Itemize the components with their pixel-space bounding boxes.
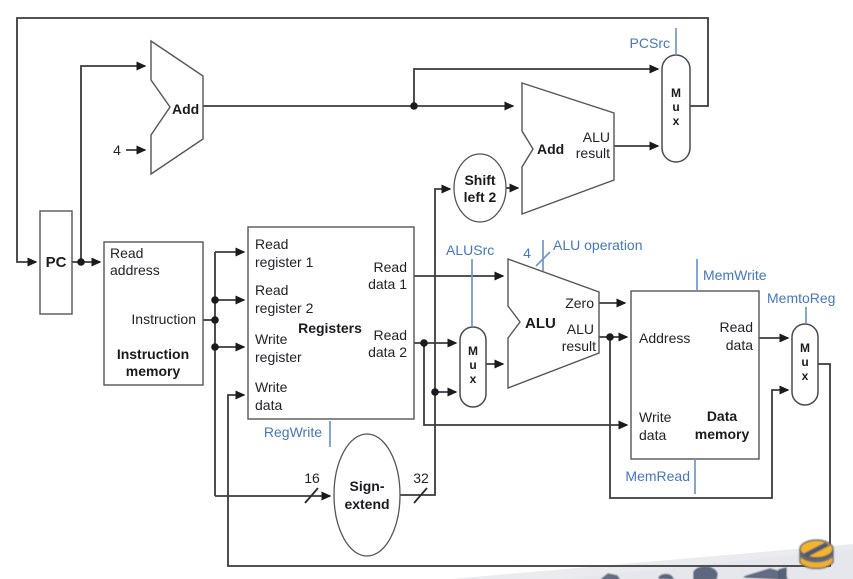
instruction memory box — [104, 242, 203, 385]
PC register box — [40, 211, 72, 314]
wire: bus to Write register — [215, 346, 244, 348]
svg-text:Shift: Shift — [464, 172, 495, 188]
adder Add (branch target) — [522, 83, 614, 214]
svg-text:Add: Add — [172, 101, 199, 117]
wire: PC output up to Add — [81, 66, 145, 262]
svg-text:MemtoReg: MemtoReg — [767, 290, 835, 306]
svg-text:Add: Add — [537, 141, 564, 157]
slash 32 — [414, 488, 427, 503]
mux PCSrc — [662, 55, 690, 162]
svg-text:Sign-: Sign- — [350, 478, 385, 494]
wire: ALUSrc mux output to ALU input 2 — [486, 363, 503, 365]
svg-text:data 1: data 1 — [368, 276, 407, 292]
svg-text:RegWrite: RegWrite — [264, 424, 322, 440]
mux MemtoReg — [792, 324, 818, 405]
svg-text:Instruction: Instruction — [117, 346, 189, 362]
svg-text:Zero: Zero — [565, 295, 594, 311]
svg-text:Read: Read — [374, 259, 407, 275]
ALU — [508, 259, 599, 388]
control signal MemWrite — [697, 259, 767, 291]
svg-text:16: 16 — [304, 470, 320, 486]
svg-text:MemWrite: MemWrite — [703, 267, 767, 283]
node: bus instruction junction — [211, 316, 219, 324]
svg-text:Read: Read — [255, 282, 288, 298]
svg-text:address: address — [110, 262, 160, 278]
wire: bus to Read register 1 — [215, 251, 244, 253]
svg-text:register 1: register 1 — [255, 254, 314, 270]
svg-text:ALU: ALU — [567, 321, 594, 337]
shift left 2 ellipse — [454, 154, 506, 222]
svg-text:M: M — [800, 341, 810, 355]
svg-text:u: u — [672, 100, 679, 114]
svg-text:data: data — [255, 397, 282, 413]
wire: sign-extend branch to ALUSrc mux input 1 — [435, 391, 456, 393]
svg-text:PC: PC — [46, 254, 67, 271]
svg-text:x: x — [673, 114, 680, 128]
svg-text:M: M — [468, 344, 478, 358]
node: Add output junction — [410, 102, 418, 110]
svg-text:u: u — [801, 355, 808, 369]
wire: bus to sign-extend — [215, 495, 330, 497]
svg-text:PCSrc: PCSrc — [630, 35, 670, 51]
wire: PC output to instruction memory — [72, 261, 100, 263]
node: read data 2 junction — [420, 339, 428, 347]
svg-text:ALUSrc: ALUSrc — [446, 242, 494, 258]
svg-text:32: 32 — [413, 470, 429, 486]
svg-text:extend: extend — [344, 496, 389, 512]
wire: ALU Zero output — [599, 302, 625, 304]
svg-text:4: 4 — [113, 142, 121, 158]
control signal RegWrite — [264, 421, 330, 447]
svg-text:memory: memory — [695, 426, 750, 442]
bit-width slashes — [305, 488, 427, 503]
control signal PCSrc — [630, 28, 676, 55]
wire: ALU result bypass to MemtoReg mux input 1 — [610, 337, 788, 498]
svg-text:Registers: Registers — [298, 320, 362, 336]
svg-text:Write: Write — [255, 379, 288, 395]
node: ALU result junction — [606, 333, 614, 341]
svg-text:x: x — [470, 372, 477, 386]
svg-text:Address: Address — [639, 330, 690, 346]
wire: instruction bus vertical — [214, 252, 216, 496]
control signal ALUSrc — [446, 242, 494, 327]
wire: Read data 2 branch down to data memory write data — [424, 343, 627, 425]
slash 16 — [305, 488, 318, 503]
svg-text:u: u — [469, 358, 476, 372]
wire: junction up to PCSrc mux input 0 — [414, 69, 658, 106]
wire: ALU result to data memory address — [599, 336, 627, 338]
svg-text:register 2: register 2 — [255, 300, 314, 316]
svg-text:x: x — [802, 369, 809, 383]
svg-text:result: result — [562, 338, 596, 354]
svg-text:register: register — [255, 349, 302, 365]
wire: instruction memory output to bus — [203, 319, 215, 321]
bottom gray wedge — [450, 544, 853, 579]
wire: PCSrc mux output feedback to PC — [17, 18, 708, 262]
svg-text:MemRead: MemRead — [625, 468, 690, 484]
svg-text:left 2: left 2 — [464, 189, 497, 205]
svg-text:data: data — [639, 427, 666, 443]
svg-text:result: result — [576, 145, 610, 161]
svg-text:Read: Read — [720, 319, 753, 335]
wire: data memory read data to MemtoReg mux input 0 — [759, 337, 788, 339]
wire: Add output to junction and branch Add — [203, 105, 513, 107]
svg-text:Read: Read — [255, 236, 288, 252]
wire: sign-extend output up to shift left 2 — [400, 189, 450, 495]
svg-text:ALU: ALU — [583, 129, 610, 145]
svg-text:ALU: ALU — [525, 315, 556, 332]
data memory box — [631, 291, 759, 459]
svg-text:M: M — [671, 86, 681, 100]
clipart: blue-gray bolt fragments at bottom edge — [602, 567, 787, 579]
wire: Read data 1 to ALU input 1 — [414, 275, 503, 277]
node: bus read register 2 junction — [211, 296, 219, 304]
wire: shift left 2 to branch Add input — [506, 187, 518, 189]
control signal MemRead — [625, 459, 695, 494]
svg-text:Instruction: Instruction — [131, 311, 196, 327]
adder Add (PC+4) — [113, 41, 203, 174]
control signal MemtoReg — [767, 290, 835, 324]
clipart: yellow screw head — [800, 540, 833, 568]
svg-text:memory: memory — [126, 363, 181, 379]
node: sign-extend output junction — [431, 388, 439, 396]
mux ALUSrc — [460, 327, 486, 407]
svg-text:Write: Write — [255, 331, 288, 347]
svg-text:Read: Read — [110, 245, 143, 261]
svg-text:Read: Read — [374, 327, 407, 343]
svg-text:Data: Data — [707, 408, 738, 424]
wire: bus to Read register 2 — [215, 299, 244, 301]
wire: MemtoReg mux output write-back to registers — [228, 364, 830, 566]
node: bus write register junction — [211, 343, 219, 351]
node: PC output junction — [77, 258, 85, 266]
wire: Read data 2 to ALUSrc mux input 0 — [414, 342, 456, 344]
registers box — [248, 227, 414, 419]
control signal ALU operation — [523, 237, 642, 271]
svg-text:data: data — [726, 337, 753, 353]
svg-text:ALU operation: ALU operation — [553, 237, 643, 253]
wire: constant 4 to Add — [126, 149, 145, 151]
wire: branch Add output to PCSrc mux input 1 — [614, 145, 658, 147]
svg-text:data 2: data 2 — [368, 344, 407, 360]
svg-text:Write: Write — [639, 409, 672, 425]
svg-text:4: 4 — [523, 245, 531, 261]
sign-extend ellipse — [304, 434, 429, 556]
